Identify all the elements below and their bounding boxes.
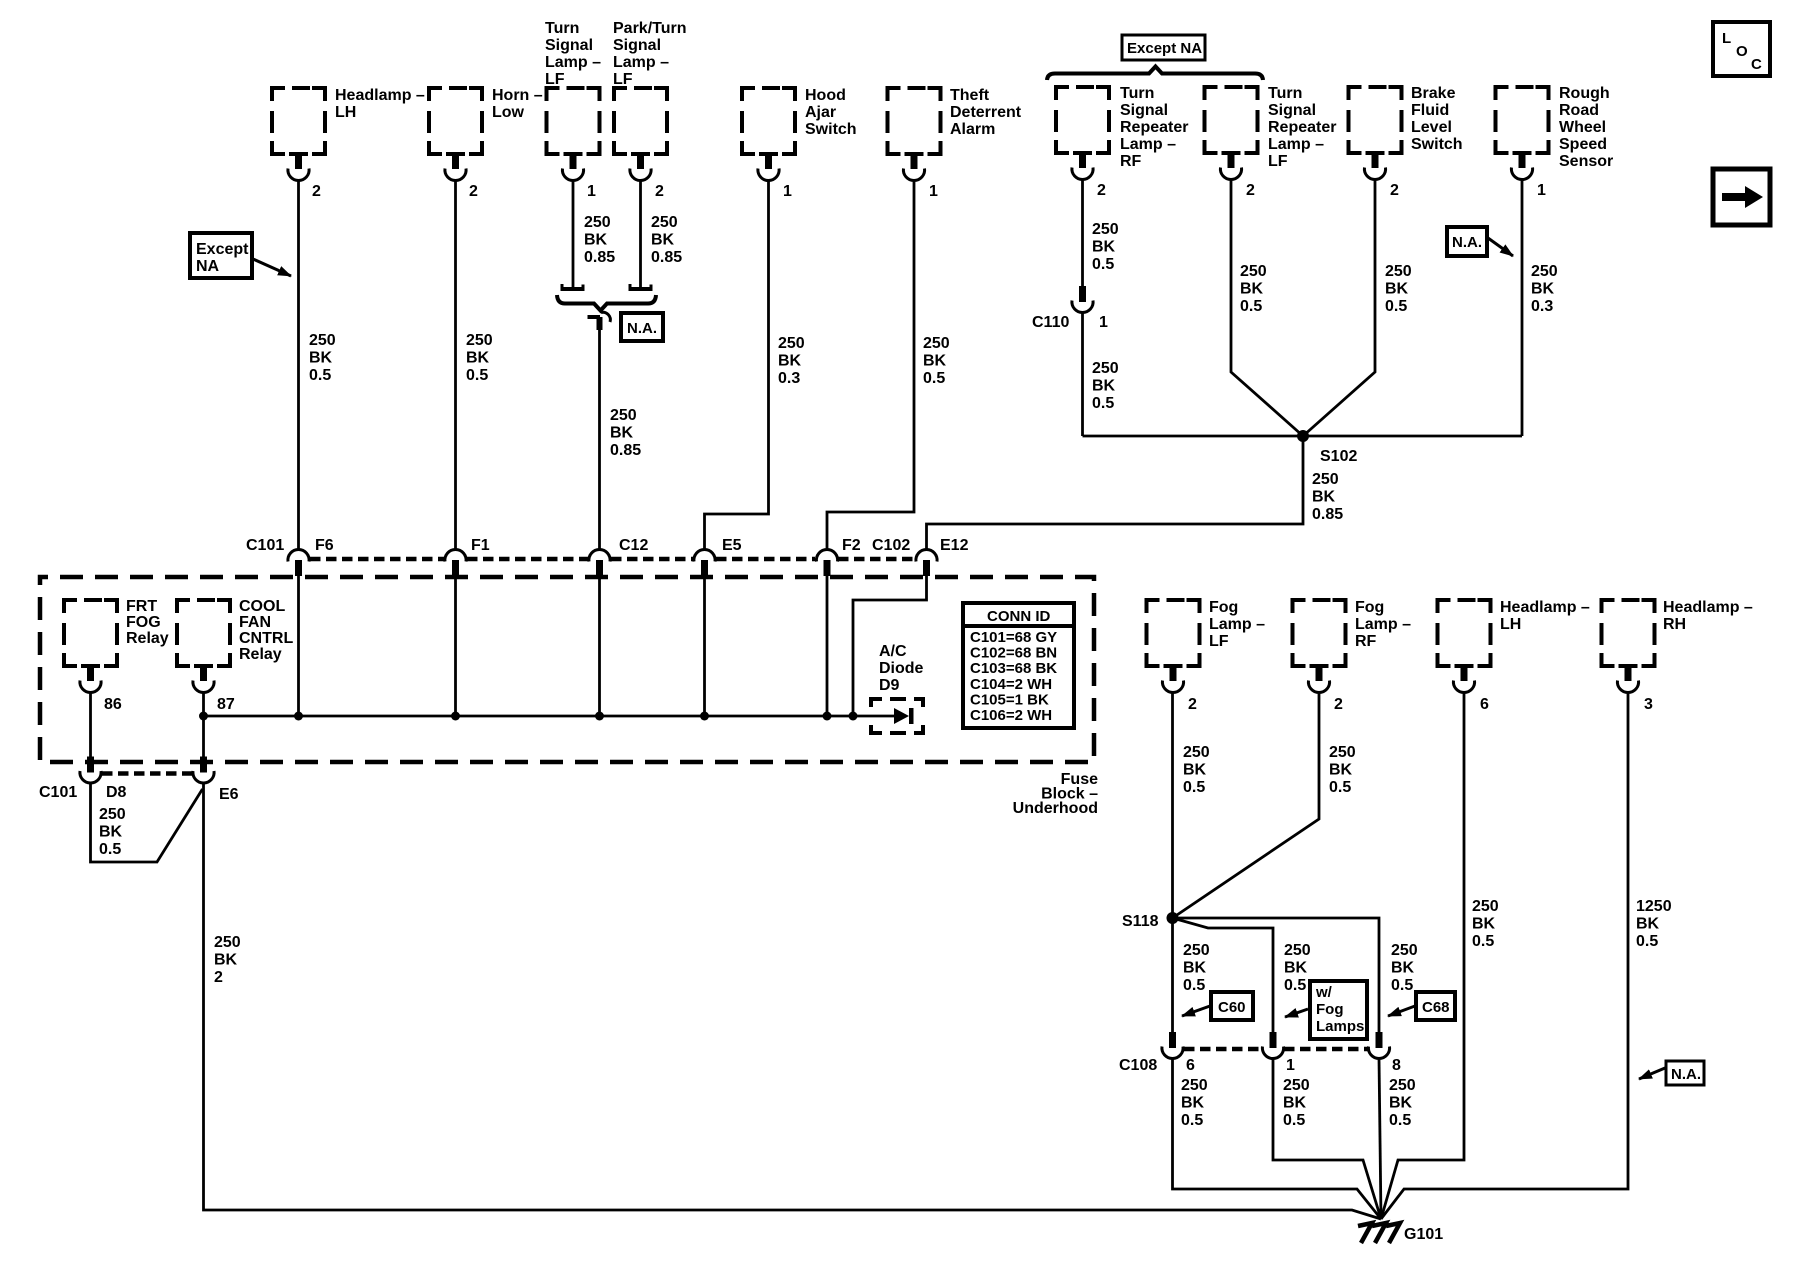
diode D9 symbol: [894, 708, 909, 724]
brace under Except NA: [1047, 67, 1263, 81]
svg-text:C68: C68: [1422, 999, 1450, 1016]
N.A. callout near Rough Road: [1447, 227, 1487, 256]
svg-text:E6: E6: [219, 786, 239, 803]
C60 callout box: [1211, 992, 1253, 1020]
connector F6: [288, 549, 309, 576]
brace joining turn signal wires: [557, 295, 656, 311]
svg-text:TheftDeterrentAlarm: TheftDeterrentAlarm: [950, 87, 1022, 138]
svg-text:250BK0.3: 250BK0.3: [778, 335, 805, 387]
svg-text:250BK0.5: 250BK0.5: [1183, 942, 1210, 994]
arrow N.A. to Rough Road wire: [1488, 238, 1513, 256]
svg-text:S118: S118: [1122, 913, 1159, 930]
wire C108 pin 6 to ground: [1173, 1058, 1382, 1219]
component box Headlamp RH: [1602, 600, 1655, 693]
svg-text:250BK0.5: 250BK0.5: [1472, 898, 1499, 950]
wire C108 pin 8 to ground: [1379, 1058, 1381, 1219]
splice S118: [1167, 912, 1179, 924]
svg-text:FogLamp –LF: FogLamp –LF: [1209, 599, 1265, 650]
connector F1: [445, 549, 466, 576]
component box Brake Fluid Level Switch: [1349, 87, 1402, 180]
junction dot F2: [823, 712, 832, 721]
connector F2: [816, 549, 837, 576]
relay box COOL FAN CNTRL Relay: [177, 600, 230, 693]
wire E6 long run to ground: [204, 783, 1382, 1219]
wire S102 to E12: [927, 436, 1304, 549]
wire F2 down to bus: [826, 575, 829, 716]
component box Fog Lamp RF: [1293, 600, 1346, 693]
svg-text:1: 1: [587, 183, 596, 200]
junction dot F6: [294, 712, 303, 721]
svg-text:250BK0.5: 250BK0.5: [1389, 1077, 1416, 1129]
diode D9 dashed box: [871, 699, 923, 733]
svg-text:F1: F1: [471, 537, 490, 554]
svg-text:250BK0.5: 250BK0.5: [309, 332, 336, 384]
svg-text:HoodAjarSwitch: HoodAjarSwitch: [805, 87, 857, 138]
svg-text:N.A.: N.A.: [1452, 234, 1482, 251]
svg-text:N.A.: N.A.: [627, 320, 657, 337]
svg-text:250BK0.5: 250BK0.5: [1385, 263, 1412, 315]
svg-text:250BK0.5: 250BK0.5: [1181, 1077, 1208, 1129]
connector C110 inline: [1072, 286, 1093, 313]
svg-text:C60: C60: [1218, 999, 1246, 1016]
svg-text:1: 1: [1099, 314, 1108, 331]
component box Park/Turn Signal Lamp LF: [614, 88, 667, 181]
component box Fog Lamp LF: [1147, 600, 1200, 693]
svg-text:C12: C12: [619, 537, 648, 554]
svg-text:C101: C101: [246, 537, 284, 554]
svg-text:C: C: [1751, 56, 1762, 73]
svg-text:250BK0.5: 250BK0.5: [99, 806, 126, 858]
wire Fog LF through S118 to C108: [1171, 693, 1174, 1034]
component box Rough Road Wheel Speed Sensor: [1496, 87, 1549, 180]
svg-text:87: 87: [217, 696, 235, 713]
svg-text:250BK0.85: 250BK0.85: [651, 214, 682, 266]
wire Horn to F1: [454, 181, 457, 549]
svg-text:2: 2: [655, 183, 664, 200]
wire Fog RF to S118: [1173, 693, 1320, 918]
svg-text:250BK0.5: 250BK0.5: [1092, 221, 1119, 273]
svg-text:Headlamp –LH: Headlamp –LH: [335, 87, 425, 121]
svg-text:Horn –Low: Horn –Low: [492, 87, 543, 121]
wire Theft Deterrent to F2: [827, 181, 914, 549]
svg-text:E5: E5: [722, 537, 742, 554]
svg-text:250BK0.5: 250BK0.5: [1284, 942, 1311, 994]
ground G101 symbol: [1358, 1223, 1400, 1243]
svg-text:Park/TurnSignalLamp –LF: Park/TurnSignalLamp –LF: [613, 20, 687, 88]
wire merge to C12: [598, 329, 601, 549]
component box Theft Deterrent Alarm: [888, 88, 941, 181]
svg-text:C108: C108: [1119, 1057, 1157, 1074]
Except NA callout box top: [1122, 35, 1205, 60]
ground bus inside fuse block: [204, 715, 895, 718]
connector C108 pin 6: [1162, 1032, 1183, 1059]
svg-text:O: O: [1736, 43, 1748, 60]
svg-text:250BK0.5: 250BK0.5: [1240, 263, 1267, 315]
svg-text:3: 3: [1644, 696, 1653, 713]
Fuse Block Underhood dashed outline: [40, 577, 1094, 762]
wire E5 down to bus: [703, 575, 706, 716]
svg-text:BrakeFluidLevelSwitch: BrakeFluidLevelSwitch: [1411, 85, 1463, 153]
svg-text:A/CDiodeD9: A/CDiodeD9: [879, 643, 924, 694]
svg-text:250BK0.5: 250BK0.5: [1391, 942, 1418, 994]
svg-text:1: 1: [929, 183, 938, 200]
svg-text:C101: C101: [39, 784, 77, 801]
connector C12: [589, 549, 610, 576]
connector C108 pin 8: [1368, 1032, 1389, 1059]
wire Headlamp LH to ground: [1381, 693, 1464, 1219]
junction dot C12: [595, 712, 604, 721]
svg-text:2: 2: [1334, 696, 1343, 713]
wire Repeater LF to S102: [1231, 180, 1303, 436]
wire relay 87 to E6: [202, 692, 205, 760]
component box Headlamp LH right: [1438, 600, 1491, 693]
svg-text:Headlamp –RH: Headlamp –RH: [1663, 599, 1753, 633]
svg-text:250BK0.5: 250BK0.5: [466, 332, 493, 384]
svg-text:N.A.: N.A.: [1671, 1066, 1701, 1083]
relay box FRT FOG Relay: [64, 600, 117, 693]
Except NA callout box: [190, 233, 252, 278]
svg-text:C110: C110: [1032, 314, 1069, 331]
svg-text:250BK0.5: 250BK0.5: [1183, 744, 1210, 796]
arrow Except NA to wire: [253, 259, 291, 276]
connector row C108 dashed line: [1184, 1047, 1368, 1052]
connector row C101 bottom dashed line: [102, 771, 192, 776]
svg-text:1: 1: [783, 183, 792, 200]
wire C108 pin 1 to ground: [1273, 1058, 1381, 1219]
svg-text:TurnSignalLamp –LF: TurnSignalLamp –LF: [545, 20, 601, 88]
svg-text:250BK0.5: 250BK0.5: [1092, 360, 1119, 412]
svg-text:L: L: [1722, 30, 1731, 47]
C68 callout box: [1416, 992, 1455, 1020]
connector E6: [193, 757, 214, 784]
arrow continuation box: [1713, 169, 1770, 225]
junction dot F1: [451, 712, 460, 721]
svg-text:2: 2: [312, 183, 321, 200]
component box Turn Signal Lamp LF: [547, 88, 600, 181]
svg-text:8: 8: [1392, 1057, 1401, 1074]
svg-text:E12: E12: [940, 537, 969, 554]
wire Turn Signal Lamp pin 1: [572, 181, 575, 287]
svg-text:RoughRoadWheelSpeedSensor: RoughRoadWheelSpeedSensor: [1559, 85, 1613, 170]
svg-text:TurnSignalRepeaterLamp –RF: TurnSignalRepeaterLamp –RF: [1120, 85, 1188, 170]
svg-text:250BK0.5: 250BK0.5: [1329, 744, 1356, 796]
connector E5: [694, 549, 715, 576]
svg-text:CONN ID: CONN ID: [987, 608, 1051, 625]
svg-text:F2: F2: [842, 537, 861, 554]
wire Park/Turn pin 2: [639, 181, 642, 287]
junction dot E5: [700, 712, 709, 721]
component box Horn Low: [429, 88, 482, 181]
junction dot E12: [849, 712, 858, 721]
svg-text:250BK2: 250BK2: [214, 934, 241, 986]
svg-text:250BK0.85: 250BK0.85: [1312, 471, 1343, 523]
svg-text:D8: D8: [106, 784, 127, 801]
svg-text:2: 2: [1188, 696, 1197, 713]
wire S118 middle branch: [1173, 918, 1274, 1034]
w/ Fog Lamps callout box: [1310, 981, 1367, 1039]
svg-text:2: 2: [1390, 182, 1399, 199]
svg-text:F6: F6: [315, 537, 334, 554]
svg-text:FRTFOGRelay: FRTFOGRelay: [126, 598, 169, 647]
svg-text:C102: C102: [872, 537, 910, 554]
arrow C68 to wire: [1388, 1006, 1415, 1016]
svg-text:1250BK0.5: 1250BK0.5: [1636, 898, 1672, 950]
junction dot 87: [199, 712, 208, 721]
connector E12: [916, 549, 937, 576]
LOC reference box: [1713, 22, 1770, 76]
svg-text:250BK0.5: 250BK0.5: [923, 335, 950, 387]
svg-text:2: 2: [1097, 182, 1106, 199]
component box Turn Signal Repeater Lamp LF: [1205, 87, 1258, 180]
wire Repeater RF to C110: [1081, 180, 1084, 289]
wire relay 86 to D8: [89, 692, 92, 760]
arrow C60 to wire: [1182, 1006, 1210, 1016]
svg-text:6: 6: [1480, 696, 1489, 713]
svg-text:1: 1: [1286, 1057, 1295, 1074]
svg-text:250BK0.5: 250BK0.5: [1283, 1077, 1310, 1129]
wire Headlamp RH to ground: [1381, 693, 1628, 1219]
wire Headlamp LH to F6: [297, 181, 300, 549]
splice S102: [1297, 430, 1309, 442]
svg-text:Headlamp –LH: Headlamp –LH: [1500, 599, 1590, 633]
N.A. callout bottom right: [1666, 1061, 1704, 1085]
connector clip at merge: [588, 315, 601, 319]
N.A. callout at merge: [621, 313, 663, 341]
svg-text:C101=68 GYC102=68 BNC103=68 BK: C101=68 GYC102=68 BNC103=68 BKC104=2 WHC…: [970, 629, 1057, 724]
svg-text:2: 2: [1246, 182, 1255, 199]
svg-text:ExceptNA: ExceptNA: [196, 241, 249, 275]
arrow N.A. to Headlamp RH wire: [1639, 1068, 1665, 1079]
wire end terminal left: [561, 287, 585, 291]
arrow w/ Fog Lamps to wire: [1285, 1009, 1308, 1017]
svg-text:COOLFANCNTRLRelay: COOLFANCNTRLRelay: [239, 598, 293, 663]
connector row C101/C102 dashed line: [310, 557, 915, 562]
wire Hood Ajar to E5: [705, 181, 769, 549]
component box Hood Ajar Switch: [742, 88, 795, 181]
svg-text:86: 86: [104, 696, 122, 713]
svg-text:G101: G101: [1404, 1226, 1443, 1243]
svg-text:250BK0.85: 250BK0.85: [610, 407, 641, 459]
svg-text:S102: S102: [1320, 448, 1357, 465]
wire E12 jog down to bus: [853, 575, 927, 716]
wire C110 to S102 junction: [1081, 312, 1084, 436]
svg-text:FuseBlock –Underhood: FuseBlock –Underhood: [1013, 771, 1098, 817]
svg-text:w/FogLamps: w/FogLamps: [1315, 984, 1364, 1035]
wire end terminal right: [629, 287, 653, 291]
svg-text:FogLamp –RF: FogLamp –RF: [1355, 599, 1411, 650]
wire horizontal into S102: [1083, 435, 1523, 438]
wire Brake Fluid to S102: [1303, 180, 1375, 436]
connector C108 pin 1: [1262, 1032, 1283, 1059]
connector D8: [80, 757, 101, 784]
svg-text:250BK0.3: 250BK0.3: [1531, 263, 1558, 315]
svg-text:1: 1: [1537, 182, 1546, 199]
wire F1 down to bus: [454, 575, 457, 716]
svg-text:250BK0.85: 250BK0.85: [584, 214, 615, 266]
wire D8 loop to E6: [91, 783, 203, 862]
wire Rough Road down: [1521, 180, 1524, 436]
CONN ID table: [963, 603, 1074, 728]
component box Headlamp LH: [272, 88, 325, 181]
wire C12 down to bus: [598, 575, 601, 716]
svg-text:6: 6: [1186, 1057, 1195, 1074]
svg-text:TurnSignalRepeaterLamp –LF: TurnSignalRepeaterLamp –LF: [1268, 85, 1336, 170]
svg-text:2: 2: [469, 183, 478, 200]
wire F6 down to bus: [297, 575, 300, 716]
svg-text:Except NA: Except NA: [1127, 40, 1202, 57]
component box Turn Signal Repeater Lamp RF: [1056, 87, 1109, 180]
wire S118 right branch: [1173, 918, 1380, 1034]
